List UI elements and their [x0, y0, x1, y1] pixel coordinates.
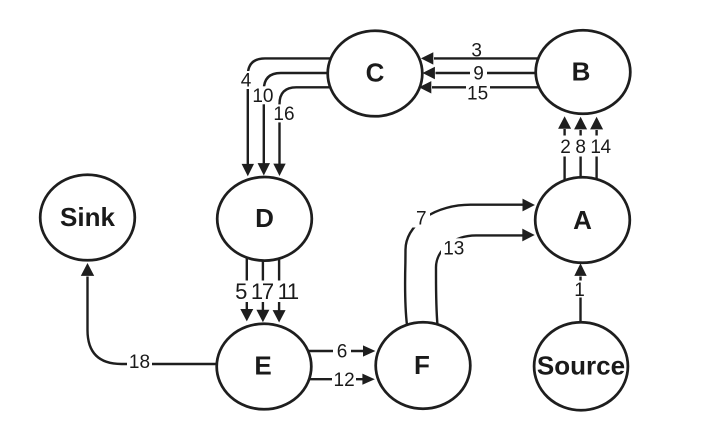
svg-text:C: C	[366, 58, 385, 88]
node B	[536, 30, 631, 114]
svg-text:A: A	[573, 205, 592, 235]
svg-text:5 17 11: 5 17 11	[235, 279, 299, 304]
svg-text:6: 6	[337, 342, 348, 363]
edge 9 B to C	[423, 63, 536, 85]
edge 2 A to B	[558, 116, 571, 180]
node A	[535, 177, 630, 263]
svg-text:15: 15	[467, 84, 488, 105]
edge 4 C to D	[237, 58, 331, 176]
svg-text:Source: Source	[537, 351, 625, 381]
edge 12 E to F	[309, 369, 375, 391]
svg-text:18: 18	[129, 352, 150, 373]
svg-text:12: 12	[334, 370, 355, 391]
edge 5 D to E	[240, 258, 253, 321]
edge 15 B to C	[419, 81, 539, 104]
label 2 8 14	[557, 136, 614, 159]
edge 1 Source to A	[573, 263, 587, 322]
svg-text:13: 13	[443, 239, 464, 260]
svg-text:16: 16	[273, 104, 294, 125]
node D	[217, 177, 312, 261]
node E	[217, 324, 312, 410]
svg-text:D: D	[255, 203, 274, 233]
svg-text:3: 3	[471, 41, 482, 62]
node Sink	[40, 175, 135, 261]
svg-text:10: 10	[252, 86, 273, 107]
svg-text:1: 1	[574, 280, 585, 301]
node F	[376, 322, 471, 408]
svg-text:F: F	[414, 350, 430, 380]
edge 7 F to A	[405, 199, 535, 326]
label 5 17 11	[234, 279, 300, 304]
edge 13 F to A	[436, 229, 535, 326]
node C	[328, 31, 423, 117]
node Source	[534, 322, 628, 410]
edge 10 C to D	[251, 73, 328, 176]
svg-text:Sink: Sink	[60, 202, 115, 232]
edge 18 E to Sink	[81, 263, 217, 373]
edge 11 D to E	[273, 259, 286, 323]
edge 3 B to C	[421, 41, 538, 65]
edge 16 C to D	[272, 87, 330, 176]
svg-text:9: 9	[473, 64, 484, 85]
edge 8 A to B	[574, 117, 587, 177]
edge 14 A to B	[590, 117, 603, 179]
edge 17 D to E	[256, 261, 269, 322]
svg-text:4: 4	[241, 71, 252, 92]
edge 6 E to F	[308, 341, 375, 363]
svg-text:E: E	[254, 351, 271, 381]
svg-text:2 8 14: 2 8 14	[560, 137, 611, 158]
svg-text:B: B	[572, 57, 591, 87]
svg-text:7: 7	[416, 209, 427, 230]
